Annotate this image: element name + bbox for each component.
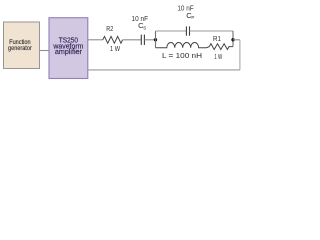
svg-text:10 nF: 10 nF (177, 4, 194, 13)
capacitor CS (140, 35, 142, 45)
svg-text:1 W: 1 W (214, 52, 223, 61)
wire: left riser of parallel tank (155, 31, 157, 48)
svg-text:L = 100 nH: L = 100 nH (162, 51, 202, 60)
amplifier U1 TS250 box (49, 18, 88, 79)
svg-text:amplifier: amplifier (55, 49, 83, 56)
wire: Cs to node A (144, 39, 155, 41)
svg-text:10 nF: 10 nF (132, 14, 149, 23)
svg-text:1 W: 1 W (110, 44, 121, 53)
inductor L1 (156, 42, 210, 47)
wire: right riser of parallel tank (232, 31, 234, 40)
function generator box (4, 22, 40, 69)
wire: tank top branch left segment (156, 30, 187, 32)
wire: node B to right edge (233, 39, 240, 41)
svg-text:R1: R1 (213, 34, 221, 43)
wire: bottom return to amplifier (88, 69, 240, 71)
wire: amplifier output to R2 (88, 39, 103, 41)
wire: generator to amplifier (40, 50, 50, 52)
wire: R1 riser to node B (232, 40, 234, 47)
svg-text:P: P (191, 15, 194, 20)
wire: right edge vertical (239, 40, 241, 70)
capacitor CP (185, 26, 187, 35)
resistor R1 (209, 44, 233, 50)
wire: R2 to Cs (123, 39, 142, 41)
node B junction dot (231, 38, 234, 41)
svg-text:R2: R2 (106, 24, 113, 33)
resistor R2 (103, 36, 123, 43)
node A junction dot (154, 38, 157, 41)
wire: tank top branch right segment (190, 30, 234, 32)
svg-text:S: S (143, 25, 146, 30)
svg-text:generator: generator (8, 45, 32, 52)
